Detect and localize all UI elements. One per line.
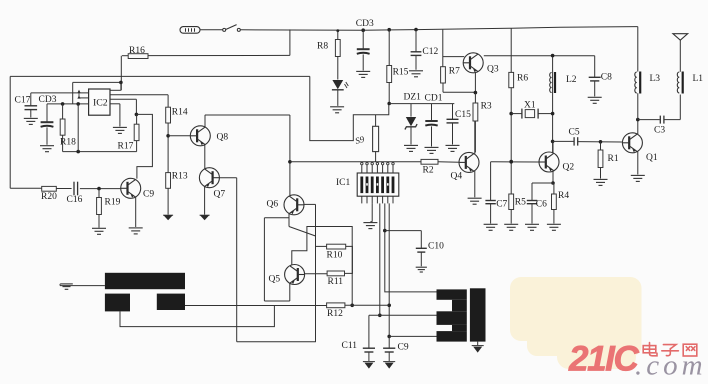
svg-text:L3: L3 (650, 74, 661, 84)
svg-text:R12: R12 (327, 309, 343, 319)
svg-text:21IC: 21IC (568, 340, 639, 379)
svg-text:R18: R18 (60, 138, 76, 148)
svg-text:DZ1: DZ1 (404, 93, 422, 103)
svg-text:CD3: CD3 (39, 95, 57, 105)
svg-text:R4: R4 (558, 191, 569, 201)
svg-text:R16: R16 (129, 46, 145, 56)
svg-text:C16: C16 (67, 195, 83, 205)
svg-text:Q2: Q2 (563, 163, 575, 173)
svg-text:C17: C17 (15, 96, 31, 106)
svg-text:.com: .com (635, 350, 707, 382)
svg-text:Q5: Q5 (269, 275, 281, 285)
svg-text:Q3: Q3 (487, 65, 499, 75)
svg-text:R17: R17 (118, 142, 134, 152)
svg-text:R15: R15 (393, 68, 409, 78)
svg-text:X1: X1 (524, 101, 536, 111)
svg-text:R3: R3 (481, 102, 492, 112)
svg-text:R2: R2 (423, 166, 434, 176)
svg-text:IC2: IC2 (93, 98, 108, 109)
svg-text:R5: R5 (515, 198, 526, 208)
svg-text:C8: C8 (601, 73, 612, 83)
svg-text:CD1: CD1 (425, 94, 443, 104)
svg-text:R8: R8 (317, 42, 328, 52)
svg-text:CD3: CD3 (356, 19, 374, 29)
svg-text:R13: R13 (172, 172, 188, 182)
svg-text:C7: C7 (496, 200, 507, 210)
svg-text:R11: R11 (328, 277, 344, 287)
svg-text:L2: L2 (566, 75, 577, 85)
svg-text:C9: C9 (398, 343, 409, 353)
svg-text:C12: C12 (422, 47, 438, 57)
svg-text:Q8: Q8 (217, 133, 229, 143)
svg-text:C5: C5 (569, 128, 580, 138)
svg-text:Q7: Q7 (214, 190, 226, 200)
svg-text:Q6: Q6 (267, 200, 279, 210)
svg-text:R1: R1 (608, 154, 619, 164)
svg-text:C15: C15 (455, 110, 471, 120)
svg-text:L1: L1 (693, 74, 704, 84)
svg-text:Q4: Q4 (451, 172, 463, 182)
svg-text:R19: R19 (105, 198, 121, 208)
svg-text:R20: R20 (41, 192, 57, 202)
svg-text:R7: R7 (449, 67, 460, 77)
svg-text:R14: R14 (172, 108, 188, 118)
svg-text:C9: C9 (143, 190, 154, 200)
svg-text:C3: C3 (654, 126, 665, 136)
svg-text:R10: R10 (327, 251, 343, 261)
svg-text:C11: C11 (342, 341, 358, 351)
svg-text:C6: C6 (536, 200, 547, 210)
svg-text:R6: R6 (517, 74, 528, 84)
svg-text:C10: C10 (428, 242, 444, 252)
svg-text:IC1: IC1 (336, 178, 351, 188)
svg-text:Q1: Q1 (646, 153, 658, 163)
